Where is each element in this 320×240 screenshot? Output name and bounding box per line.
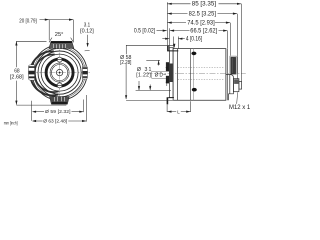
- svg-text:[2.28]: [2.28]: [120, 60, 132, 66]
- dim L line: [167, 111, 190, 113]
- D58 leader down: [125, 64, 127, 99]
- circle D59: [34, 47, 85, 98]
- arrow 0.5: [163, 30, 167, 32]
- screw head top: [191, 52, 196, 56]
- clamp spring arc inner left: [35, 54, 59, 92]
- ext line right of 20 dim: [72, 20, 74, 42]
- dim D63 line: [33, 120, 43, 122]
- arrow 3.1 down: [87, 43, 89, 47]
- svg-text:4 [0.16]: 4 [0.16]: [186, 37, 202, 43]
- arrows 82.5: [168, 13, 172, 15]
- flange disc D63: [173, 49, 177, 101]
- shaft: [152, 71, 170, 78]
- M12 leader: [236, 92, 239, 104]
- ext line ref A claw front: [166, 2, 168, 45]
- ext line flange back: [172, 37, 174, 49]
- claw top side: [167, 46, 178, 52]
- arrows 20 dim: [45, 19, 49, 21]
- ext line 85 right: [240, 4, 242, 81]
- rear cap line: [227, 49, 229, 101]
- arrows 31 bottom: [138, 86, 140, 90]
- svg-text:Ø 59 [2.32]: Ø 59 [2.32]: [45, 109, 71, 115]
- claw left: [28, 65, 34, 80]
- shaft circle: [56, 69, 62, 75]
- thick dark ring: [46, 59, 73, 86]
- svg-text:85 [3.35]: 85 [3.35]: [192, 2, 217, 8]
- claw bottom: [50, 97, 70, 105]
- hub circle a: [50, 63, 69, 82]
- svg-text:0.5 [0.02]: 0.5 [0.02]: [134, 28, 155, 34]
- svg-text:mm [inch]: mm [inch]: [4, 121, 18, 126]
- arrows 4: [165, 38, 169, 40]
- dim 3.1 leader: [87, 35, 89, 46]
- centerline vertical: [59, 42, 61, 105]
- svg-text:25°: 25°: [55, 32, 64, 38]
- dim 31 ext bottom: [136, 89, 171, 91]
- arrow 31 top: [158, 60, 160, 64]
- arrows 66.5: [170, 30, 174, 32]
- arrows 68: [15, 41, 17, 45]
- svg-text:82.5 [3.25]: 82.5 [3.25]: [189, 11, 217, 17]
- ext line 74.5 right: [229, 23, 231, 56]
- D58 leader up: [126, 45, 174, 54]
- svg-text:Ø D: Ø D: [155, 72, 163, 78]
- dim line 74.5: [168, 22, 231, 24]
- connector upper dark: [230, 56, 238, 74]
- svg-text:[1.22]: [1.22]: [136, 72, 151, 78]
- ext lines D59 D63 right: [83, 100, 85, 113]
- hub circle b: [52, 65, 68, 81]
- body outline: [173, 49, 226, 101]
- ext line collar back: [177, 37, 179, 49]
- screw top: [57, 57, 62, 62]
- dim 68 vertical line: [15, 41, 17, 67]
- dim line 66.5: [170, 30, 228, 32]
- clamp spring arc outer left: [30, 51, 58, 95]
- screw head bottom: [192, 88, 197, 92]
- dim 31 arrow lines bottom: [139, 81, 150, 90]
- dim L ext right: [190, 101, 192, 112]
- dim line 82.5: [168, 13, 238, 15]
- dim D59 line: [33, 111, 44, 113]
- M12 barrel: [233, 79, 241, 92]
- arrows D59: [32, 111, 36, 113]
- body seam line: [189, 49, 191, 101]
- gland on top: [49, 41, 74, 48]
- housing rim circle: [38, 51, 81, 94]
- ext line 68 top: [16, 40, 46, 42]
- angle tick left: [49, 38, 52, 43]
- ext line left of 20 dim: [48, 20, 50, 41]
- ext line 68 bottom: [16, 104, 66, 106]
- dim line 4 right arrow tail: [178, 38, 185, 40]
- inner circle: [41, 54, 78, 91]
- hidden bore lines: [178, 67, 224, 69]
- label D leader dash: [163, 73, 166, 75]
- svg-text:Ø 63 [2.48]: Ø 63 [2.48]: [43, 118, 67, 124]
- svg-text:66.5 [2.62]: 66.5 [2.62]: [190, 28, 217, 34]
- ext lines D59 D63 left: [30, 101, 32, 121]
- outer flange circle D63: [32, 45, 87, 100]
- ext line 82.5 right: [236, 14, 238, 79]
- center dot: [59, 72, 61, 74]
- dim D arrow lines: [166, 64, 168, 87]
- arrows D: [166, 67, 168, 71]
- dim 31 arrow line top: [158, 61, 160, 66]
- claw bottom side: [167, 97, 174, 104]
- dim line 0.5 leader: [157, 30, 167, 32]
- M12 thread tip: [239, 81, 242, 89]
- svg-text:20 [0.79]: 20 [0.79]: [19, 18, 37, 24]
- arrows 85: [168, 3, 172, 5]
- arrow D58 down: [125, 95, 127, 99]
- dim line 4 left arrow tail: [162, 38, 169, 40]
- svg-text:[0.12]: [0.12]: [80, 29, 94, 35]
- svg-text:74.5 [2.93]: 74.5 [2.93]: [187, 20, 215, 26]
- arrow D58 top: [173, 44, 175, 48]
- arrows 74.5: [168, 22, 172, 24]
- screw bottom: [57, 83, 62, 88]
- body seam line 2: [192, 49, 194, 101]
- arrows D63: [32, 120, 36, 122]
- flange plate: [169, 48, 173, 98]
- claw mid side dark blobs: [166, 62, 173, 83]
- ext line flange front: [169, 28, 171, 47]
- dim 20 line: [40, 19, 74, 21]
- circle D58: [35, 48, 84, 97]
- svg-text:[2.68]: [2.68]: [10, 74, 24, 80]
- ext line 66.5 right: [227, 31, 229, 49]
- svg-text:M12 x 1: M12 x 1: [229, 105, 251, 111]
- dim L ext left: [166, 105, 168, 112]
- claw right: [82, 66, 87, 79]
- dim 31 ext top: [146, 59, 160, 61]
- centerline: [147, 73, 246, 75]
- label L: [176, 108, 181, 113]
- angle tick right: [71, 38, 74, 43]
- centerline horizontal: [29, 72, 92, 74]
- dim line 85: [168, 3, 242, 5]
- arrows L: [167, 111, 171, 113]
- connector boot lower: [226, 75, 234, 101]
- D58 bottom ext line: [126, 99, 173, 101]
